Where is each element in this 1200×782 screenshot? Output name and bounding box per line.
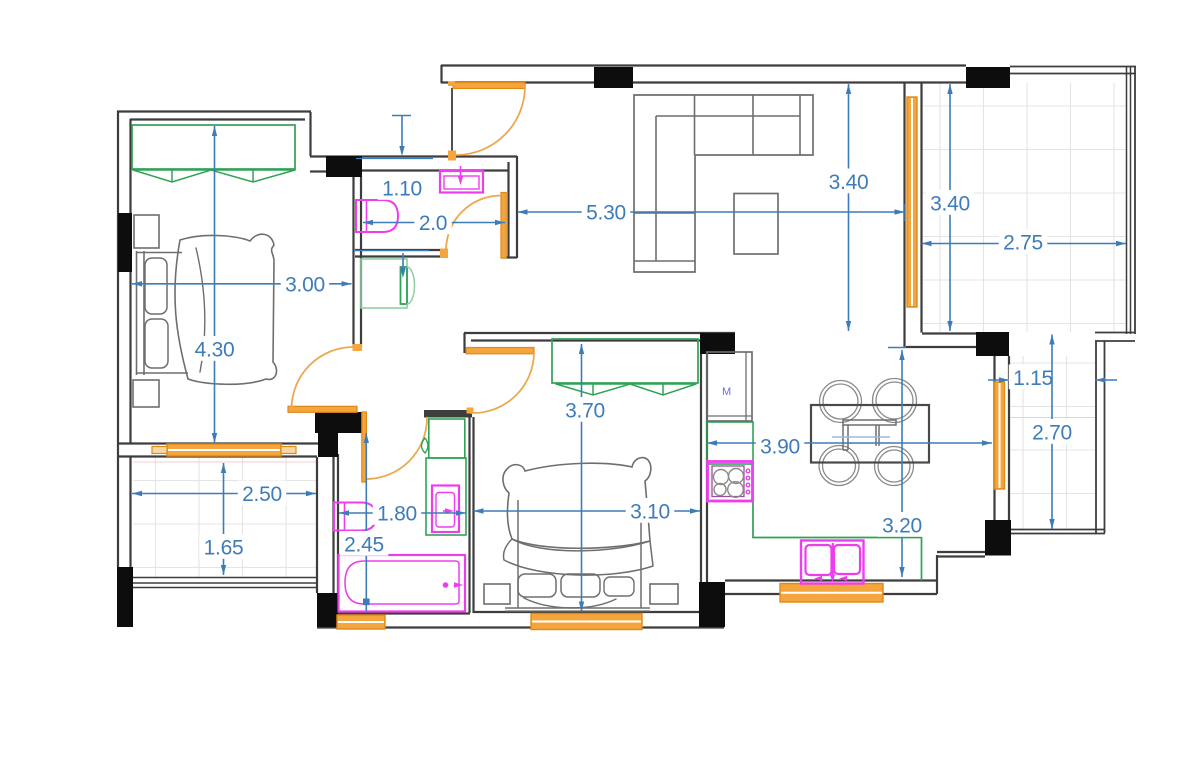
- bed1 blanket: [175, 234, 277, 384]
- bed2 blanket upper: [503, 458, 651, 549]
- kitchen sink taps: [814, 576, 822, 581]
- svg-text:1.15: 1.15: [1013, 367, 1053, 390]
- hall closet door leaf: [401, 267, 408, 304]
- window living/balcony: [907, 97, 917, 307]
- wall block bath2 sw: [317, 593, 338, 627]
- balcony (bottom-left) tile grid: [133, 457, 317, 577]
- kitchen sink basin left: [806, 545, 832, 575]
- svg-text:2.75: 2.75: [1003, 232, 1043, 255]
- wall bedroom2 top inner: [471, 339, 700, 341]
- door bedroom2 swing arc: [471, 354, 534, 414]
- svg-text:M: M: [722, 386, 731, 398]
- wall balcony step top: [1095, 332, 1135, 334]
- wc toilet: [356, 200, 398, 232]
- bathtub basin: [345, 561, 459, 604]
- wall bedroom1 left inner: [129, 119, 131, 444]
- bath2 toilet tank divider: [344, 503, 346, 531]
- dimension extension line wc top: [356, 158, 433, 160]
- bed1 pillow lower: [145, 319, 168, 368]
- sofa chaise back: [655, 116, 657, 261]
- bed2 blanket fold band: [503, 539, 653, 575]
- svg-text:3.10: 3.10: [630, 501, 670, 524]
- door entry stop tick: [448, 151, 456, 161]
- wall bedroom1 east line2: [360, 177, 362, 347]
- bed2 foot line: [505, 607, 650, 609]
- wall block hall south leg: [318, 433, 338, 457]
- bathtub faucet: [443, 582, 449, 588]
- dimension tick 5.30 right ext: [904, 204, 906, 221]
- dimension 3.00: [132, 271, 352, 297]
- wall block left wall middle: [118, 213, 132, 272]
- wall wc right cap: [501, 256, 517, 258]
- wall block top wall right: [966, 67, 1010, 88]
- bath2 counter upper: [429, 419, 465, 458]
- dimension 3.20: [878, 350, 927, 577]
- dimension label 1.10: [378, 175, 427, 201]
- door bath2 leaf: [362, 412, 367, 482]
- coffee table: [734, 194, 778, 255]
- bed2 pillow left: [518, 574, 556, 597]
- wall living/balcony window left: [903, 83, 905, 348]
- wall bedroom2 bottom inner: [474, 611, 701, 613]
- wall kitchen-balcony right outer: [1104, 341, 1106, 533]
- dimension 3.40 living: [824, 84, 873, 331]
- wall living/kitchen divider lower: [906, 346, 976, 348]
- svg-text:5.30: 5.30: [586, 202, 626, 225]
- wall kitchen-balcony bottom inner: [1011, 529, 1105, 531]
- wall block kitchen ne: [976, 332, 1009, 356]
- dining chair ne: [873, 379, 917, 423]
- door bedroom1 leaf: [288, 406, 357, 412]
- wall wc top outer: [310, 155, 517, 157]
- svg-text:2.45: 2.45: [344, 534, 384, 557]
- wall kitchen-balcony right inner: [1095, 341, 1097, 533]
- wall balcony top outer: [1010, 66, 1136, 68]
- bed1 blanket fold: [196, 248, 205, 372]
- wall living/balcony window right: [920, 83, 922, 333]
- dimension 1.80: [339, 500, 466, 526]
- door bath2 swing arc: [366, 418, 427, 480]
- dimension 3.10: [474, 498, 701, 524]
- wall bedroom2 top outer: [464, 332, 735, 334]
- window bath2 south: [337, 615, 385, 629]
- dining table centerpiece: [843, 420, 896, 425]
- window kitchen/balcony: [995, 382, 1005, 489]
- wall living/kitchen divider upper: [922, 332, 976, 334]
- svg-text:2.70: 2.70: [1032, 422, 1072, 445]
- wall block top wall left: [594, 67, 633, 88]
- dimension 2.45: [340, 433, 389, 611]
- wall bedroom2/bath2 line2: [472, 417, 474, 613]
- wall bedroom2/kitchen line2: [706, 354, 708, 582]
- sofa back line: [656, 115, 800, 117]
- wall kitchen window col left: [993, 356, 995, 520]
- wall kitchen bottom-right vertical: [936, 555, 938, 594]
- stove inner: [712, 466, 744, 497]
- wall wc right outer: [516, 156, 518, 258]
- wall bedroom1 east cap: [353, 344, 363, 351]
- bed2 pillow right: [604, 577, 634, 596]
- window kitchen south: [780, 584, 883, 603]
- svg-text:2.0: 2.0: [419, 212, 447, 235]
- wall kitchen-balcony bottom outer: [1011, 533, 1105, 535]
- wall balcony right line1: [1126, 66, 1128, 334]
- balcony (top-right) tile grid: [921, 83, 1126, 332]
- svg-text:3.70: 3.70: [565, 400, 605, 423]
- wall wc bottom line2: [355, 255, 448, 257]
- stove knobs: [746, 469, 750, 473]
- wall bath2 bottom inner: [338, 612, 470, 614]
- wall block kitchen window south: [985, 520, 1011, 556]
- balcony2 railing line3: [133, 587, 317, 589]
- kitchen counter edge: [753, 500, 922, 580]
- sofa cushion divider1: [694, 95, 696, 155]
- svg-text:3.20: 3.20: [882, 515, 922, 538]
- stove burner1: [714, 470, 729, 485]
- hall closet door arc: [407, 267, 414, 304]
- kitchen sink: [801, 541, 864, 584]
- sofa chaise divider: [634, 212, 695, 214]
- bath2 counter lower: [426, 458, 466, 535]
- door bedroom1 swing arc: [292, 347, 354, 409]
- svg-text:3.40: 3.40: [829, 171, 869, 194]
- closet bedroom1: [132, 125, 295, 169]
- dining chair se: [875, 447, 914, 486]
- wall bedroom1 top jog: [309, 112, 311, 156]
- dimension 4.30: [190, 126, 239, 443]
- svg-text:3.40: 3.40: [930, 193, 970, 216]
- wall block bedroom2 ne: [700, 333, 735, 354]
- wall bedroom1 top outer: [117, 110, 311, 112]
- wall bedroom1 ne inner: [310, 170, 326, 172]
- dining table: [811, 405, 929, 463]
- closet bedroom2: [552, 339, 698, 383]
- door entry swing arc: [456, 86, 525, 155]
- wall wc right inner: [507, 162, 509, 258]
- wall top left cap: [440, 65, 442, 83]
- dimension tick 1.10 upper: [392, 115, 411, 156]
- dimension extension line wc bottom: [354, 250, 429, 252]
- wall balcony2 left inner: [129, 457, 131, 567]
- wall bottom outer: [317, 626, 724, 628]
- wall bath2 top bar: [424, 410, 472, 418]
- sofa outline: [634, 95, 813, 272]
- wall balcony right line2: [1130, 66, 1132, 334]
- bed1 nightstand upper: [134, 215, 159, 248]
- bathtub: [339, 555, 466, 612]
- wall bedroom2/kitchen line1: [700, 354, 702, 582]
- dimension 2.70: [1028, 335, 1077, 530]
- door entry leaf: [453, 83, 525, 89]
- door wc swing arc: [446, 196, 501, 251]
- bath2 toilet: [334, 503, 376, 531]
- balcony2 railing line1: [133, 577, 317, 579]
- wall kitchen step upper: [937, 551, 985, 553]
- wall bedroom1 top inner: [130, 118, 305, 120]
- sofa foot line: [634, 260, 695, 262]
- wall bedroom2 left jamb: [463, 333, 465, 353]
- closet bedroom1 hangers: [133, 170, 295, 182]
- svg-text:4.30: 4.30: [195, 339, 235, 362]
- wall bedroom1 bottom outer: [118, 455, 317, 457]
- bath2 counter valve: [422, 438, 429, 453]
- wall wc bottom line1: [355, 249, 448, 251]
- bed2 frame left: [517, 500, 519, 608]
- wall kitchen bottom inner: [725, 579, 937, 581]
- bed2 blanket tail: [524, 598, 616, 608]
- wall kitchen window col right: [1008, 356, 1010, 520]
- wall bedroom1 bottom inner: [118, 442, 318, 444]
- bed1 nightstand lower: [133, 380, 159, 407]
- dining chair sw: [819, 446, 859, 486]
- door wc leaf: [501, 193, 506, 259]
- svg-text:1.65: 1.65: [204, 537, 244, 560]
- wall wc bottom cap: [440, 249, 448, 259]
- svg-text:1.10: 1.10: [382, 178, 422, 201]
- wall kitchen step lower: [937, 555, 985, 557]
- kitchen cabinet below fridge: [707, 422, 753, 464]
- wall block kitchen sw: [699, 582, 725, 627]
- window bedroom1 south: [167, 444, 281, 456]
- svg-text:3.90: 3.90: [760, 436, 800, 459]
- door bedroom2 leaf: [466, 348, 534, 354]
- dimension 2.75: [922, 229, 1127, 255]
- dimension 3.90: [707, 433, 992, 459]
- wall top inner: [441, 81, 966, 83]
- dimension 5.30: [518, 199, 905, 225]
- kitchen balcony tile grid: [1010, 356, 1095, 529]
- wc toilet tank divider: [366, 200, 368, 232]
- wall top outer: [441, 64, 966, 66]
- bed2 frame right: [640, 500, 642, 608]
- stove burner2: [729, 469, 744, 484]
- fridge: [707, 352, 752, 421]
- bed2 nightstand left: [484, 584, 510, 604]
- stove burner3: [714, 484, 726, 496]
- wall bedroom2/bath2 line1: [468, 417, 470, 613]
- kitchen sink basin right: [834, 545, 860, 574]
- wall wc top inner: [362, 169, 508, 171]
- kitchen sink divider: [832, 543, 834, 579]
- stove burner4: [728, 482, 744, 498]
- window bedroom2 south: [531, 614, 642, 630]
- wall balcony2/bath2 divider: [316, 457, 318, 593]
- bed2 pillow mid: [561, 574, 600, 597]
- stove: [708, 462, 753, 502]
- svg-text:3.00: 3.00: [285, 273, 325, 296]
- closet bedroom2 hangers: [556, 384, 696, 395]
- wall kitchen bottom outer: [725, 593, 937, 595]
- svg-text:2.50: 2.50: [242, 483, 282, 506]
- wall balcony step bottom: [1095, 340, 1135, 342]
- dimension 3.70: [561, 344, 610, 612]
- wall entry jamb: [451, 88, 453, 152]
- wall block bedroom1 ne: [326, 156, 362, 177]
- bed1 pillow upper: [145, 258, 167, 314]
- dimension 1.15: [988, 364, 1117, 390]
- door bedroom2 stop tick: [467, 408, 474, 414]
- wall bath2 left line1: [332, 454, 334, 593]
- bath2 sink: [432, 486, 459, 533]
- dimension 3.40 balcony: [926, 84, 975, 331]
- hall closet: [361, 259, 407, 308]
- wall block hall south arm: [315, 412, 362, 433]
- sofa right arm: [799, 95, 801, 155]
- dining highlight line: [832, 436, 890, 438]
- wall block balcony2 sw: [117, 567, 133, 627]
- bed1 headboard: [136, 251, 138, 375]
- bed2 nightstand right: [650, 584, 678, 604]
- dimension tick 1.10 lower: [400, 253, 405, 278]
- sofa cushion divider2: [752, 95, 754, 155]
- wall balcony right line3: [1134, 66, 1136, 334]
- dimension tick 3.20 ext: [888, 347, 906, 349]
- wc sink: [440, 171, 483, 193]
- wall bedroom1 east line1: [352, 177, 354, 347]
- wall bath2 left line2: [337, 454, 339, 593]
- dining chair nw: [820, 381, 862, 423]
- balcony2 railing line2: [133, 582, 317, 584]
- wall balcony top inner: [1010, 73, 1136, 75]
- svg-text:1.80: 1.80: [377, 503, 417, 526]
- dimension 2.50: [132, 480, 316, 506]
- dimension 1.65: [199, 463, 248, 575]
- dimension 2.0: [363, 209, 505, 235]
- wall left outer: [117, 111, 119, 567]
